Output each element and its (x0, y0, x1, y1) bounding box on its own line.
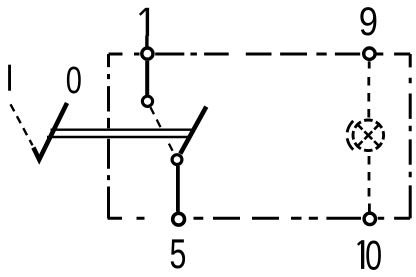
lamp reflector arc lower (347, 138, 353, 149)
wire: pivot to terminal 5 (176, 166, 180, 212)
svg-text:0: 0 (66, 59, 82, 102)
mechanical coupling lower line (47, 136, 189, 138)
wire: terminal 9 to lamp (dashed) (367, 77, 370, 119)
terminal 10 circle (364, 213, 375, 224)
moving contact lever, position 0 (180, 107, 206, 154)
wire: lamp to terminal 10 (dashed) (368, 156, 371, 197)
svg-text:9: 9 (359, 0, 378, 44)
terminal 9 circle (364, 48, 375, 59)
terminal 1 stub (145, 36, 148, 48)
terminal 10 stub (368, 204, 371, 213)
lamp L1 cross diagonal 2 (dashed) (357, 124, 380, 147)
svg-text:5: 5 (170, 230, 187, 277)
pivot contact circle (172, 155, 182, 165)
position label I (8, 65, 11, 91)
svg-text:0: 0 (365, 232, 382, 277)
actuator position I (dashed) (11, 104, 33, 145)
lamp L1 circle (dashed) (353, 120, 384, 151)
terminal 9 stub (368, 61, 371, 68)
switch housing outline, left side (dash-dot) (107, 54, 110, 218)
terminal 1 circle (142, 48, 153, 59)
terminal 5 circle (173, 213, 185, 225)
fixed contact circle (142, 96, 152, 106)
switch housing outline, right side (dash-dot) (409, 54, 412, 218)
switch housing outline, bottom side (dash-dot) (108, 217, 411, 220)
lamp L1 cross diagonal 1 (dashed) (357, 124, 380, 147)
mechanical coupling upper line (51, 128, 194, 130)
actuator lever, position 0 (33, 103, 67, 160)
pin label 10 (358, 232, 382, 277)
moving contact, alternate position I (dashed) (151, 107, 175, 153)
wire: terminal 1 to fixed contact (145, 61, 149, 95)
pin label 1 (140, 8, 149, 36)
lamp reflector arc upper (347, 121, 353, 132)
switch housing outline, top side (dash-dot) (109, 53, 411, 56)
